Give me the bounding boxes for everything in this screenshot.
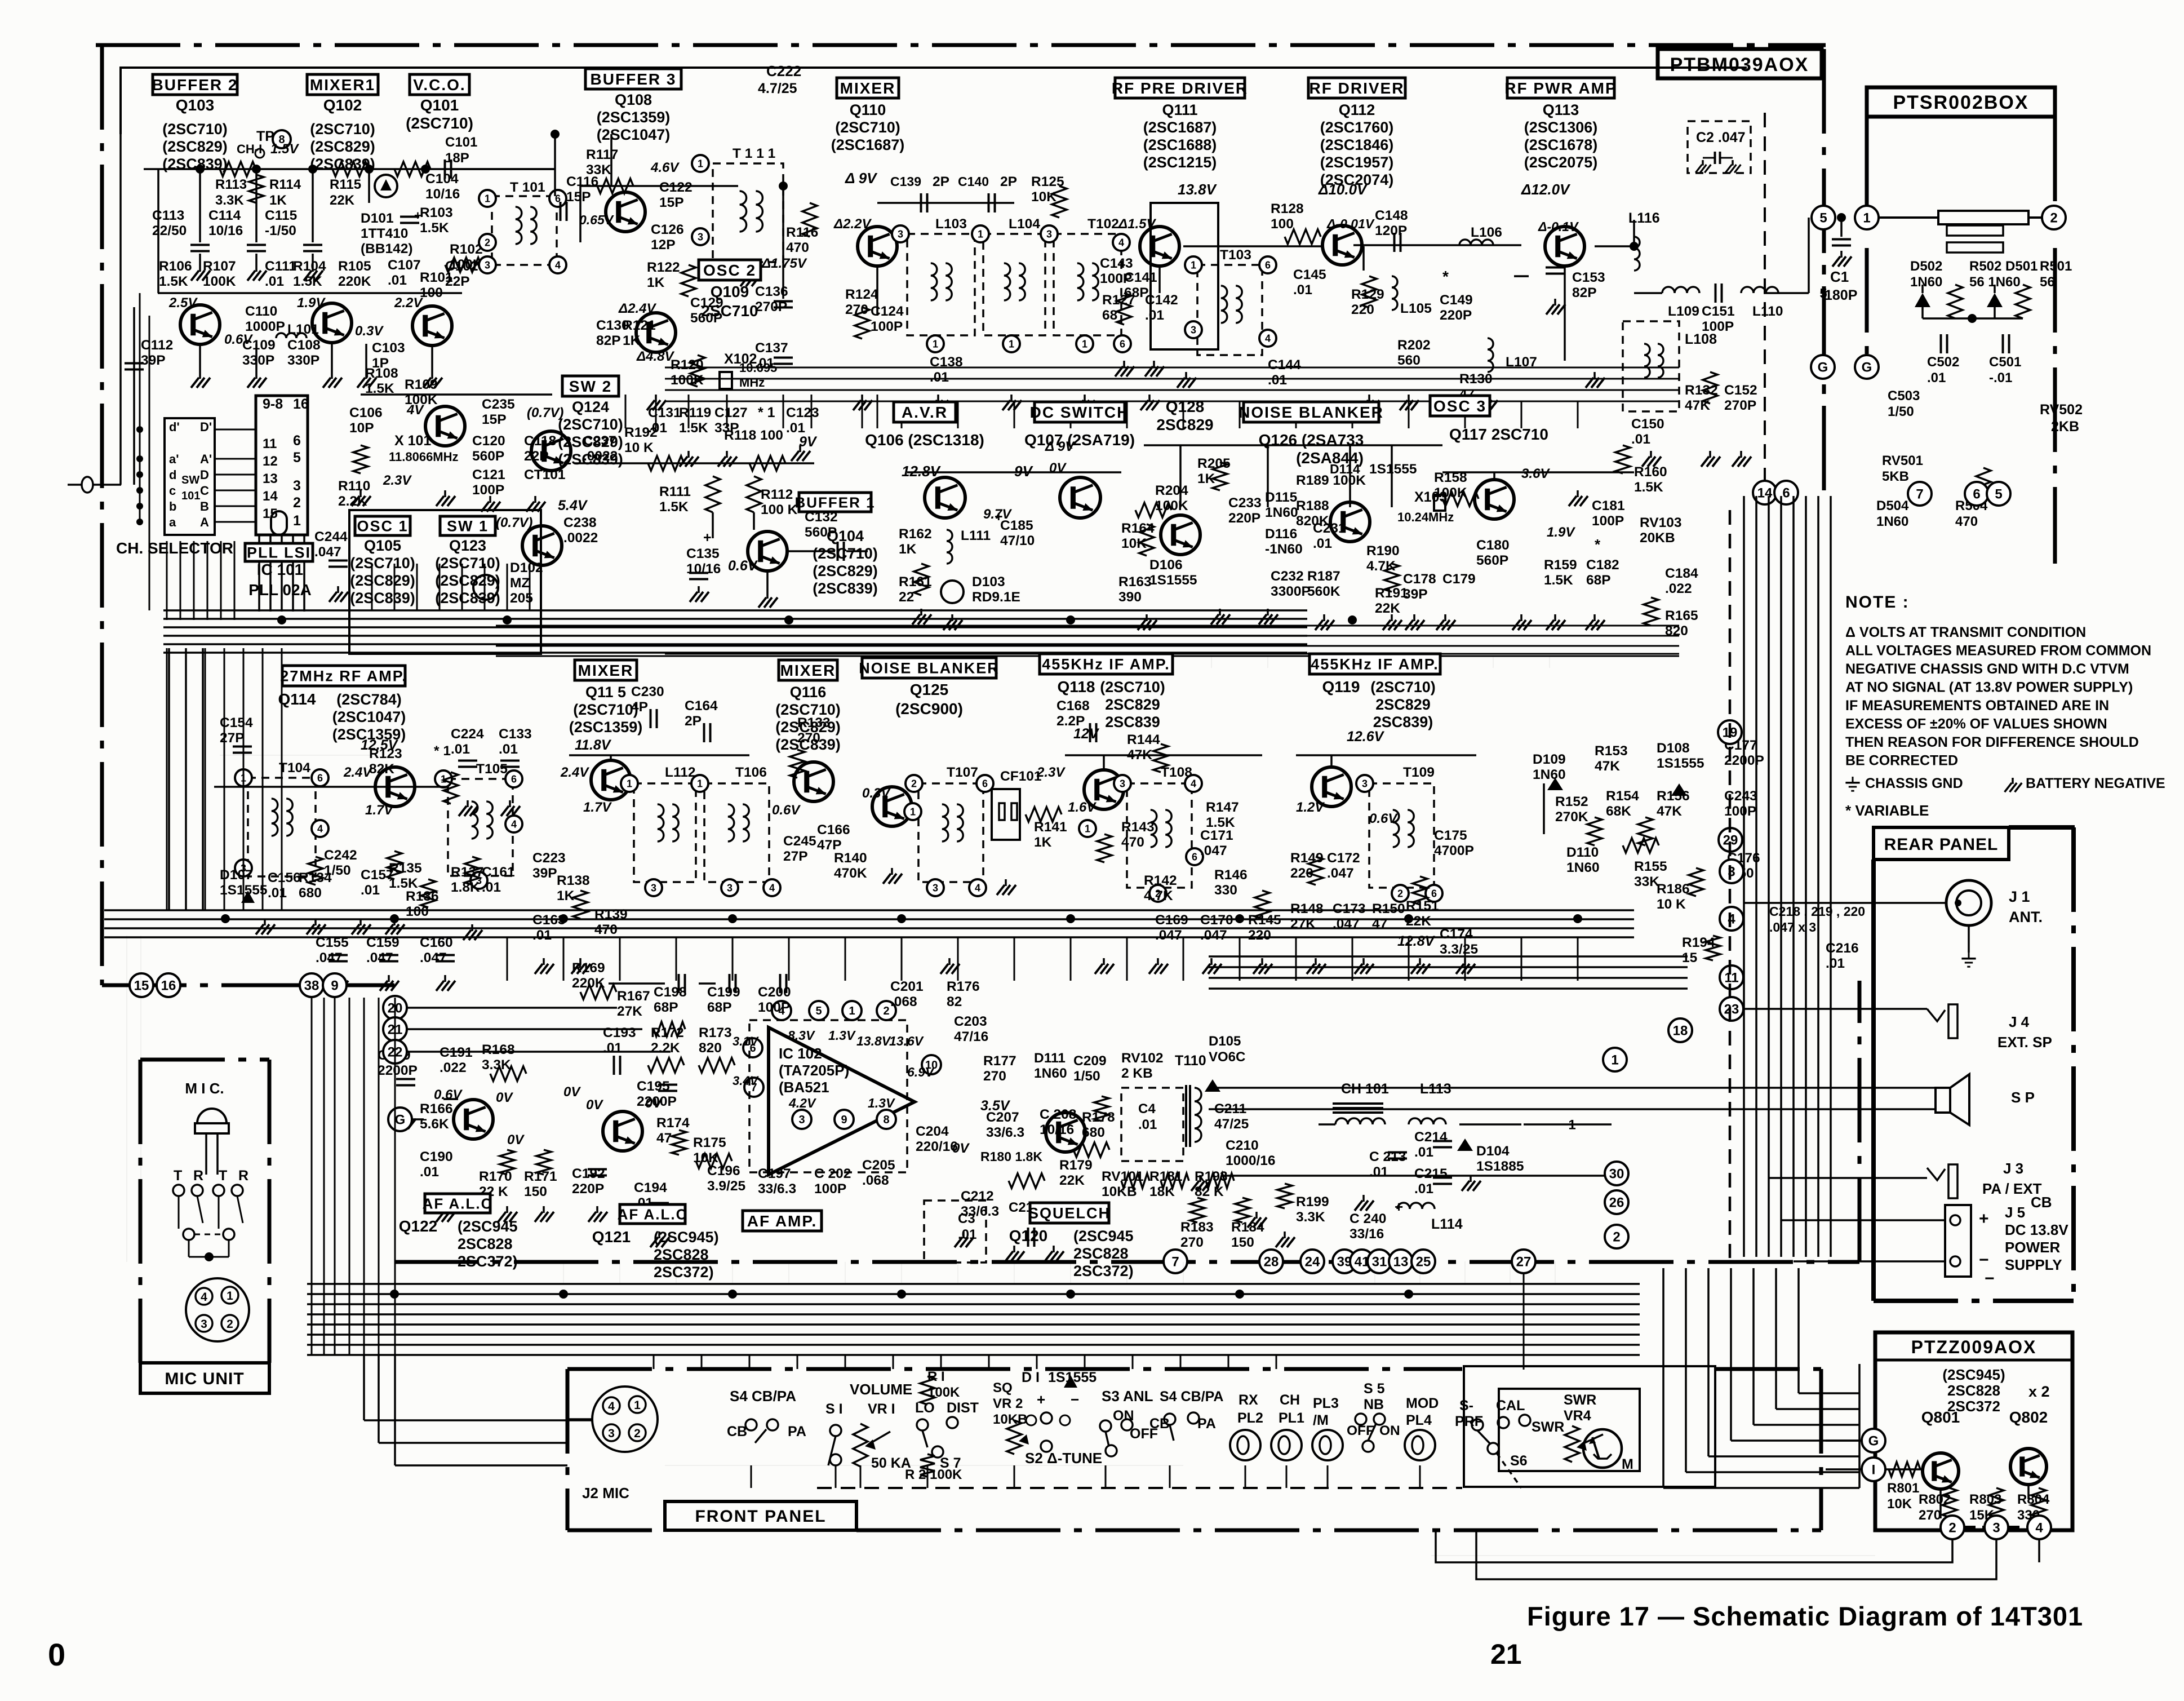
svg-text:2.2K: 2.2K <box>338 494 367 509</box>
svg-text:Q112: Q112 <box>1339 101 1375 118</box>
svg-text:SWR: SWR <box>1532 1419 1564 1435</box>
svg-text:3.3/25: 3.3/25 <box>1440 942 1478 957</box>
svg-text:0V: 0V <box>496 1090 513 1105</box>
svg-text:.01: .01 <box>1293 282 1312 298</box>
svg-text:+: + <box>703 530 712 546</box>
svg-text:10K: 10K <box>1887 1496 1912 1512</box>
svg-text:20KB: 20KB <box>1640 530 1675 546</box>
svg-text:3.3K: 3.3K <box>215 193 244 208</box>
svg-text:R155: R155 <box>1634 859 1667 874</box>
svg-text:D114: D114 <box>1330 462 1360 476</box>
svg-text:3: 3 <box>933 882 938 893</box>
svg-text:a: a <box>169 515 176 529</box>
svg-text:2SC828: 2SC828 <box>654 1246 709 1263</box>
svg-text:* 1: * 1 <box>434 743 451 759</box>
svg-text:100P: 100P <box>472 482 504 498</box>
svg-text:3.9/25: 3.9/25 <box>707 1179 745 1194</box>
svg-text:C123: C123 <box>786 405 819 420</box>
svg-text:2: 2 <box>883 1005 889 1017</box>
svg-text:ON: ON <box>1379 1423 1400 1438</box>
svg-text:6: 6 <box>1973 487 1980 502</box>
svg-text:MIXER: MIXER <box>840 79 896 97</box>
svg-text:R177: R177 <box>983 1053 1016 1069</box>
svg-text:MIXER1: MIXER1 <box>310 76 375 94</box>
svg-text:26: 26 <box>1609 1195 1624 1211</box>
svg-text:S4 CB/PA: S4 CB/PA <box>1160 1389 1223 1405</box>
svg-text:T106: T106 <box>735 765 767 780</box>
svg-text:Q101: Q101 <box>420 96 459 114</box>
svg-text:(BA521: (BA521 <box>779 1079 829 1096</box>
svg-text:L110: L110 <box>1752 304 1783 319</box>
svg-text:MHz: MHz <box>739 375 765 389</box>
svg-text:1.3V: 1.3V <box>828 1028 856 1043</box>
svg-text:D108: D108 <box>1657 741 1690 756</box>
svg-text:R123: R123 <box>369 746 402 761</box>
svg-text:(2SC1687): (2SC1687) <box>831 136 905 153</box>
svg-text:.01: .01 <box>482 880 501 895</box>
svg-text:Q106 (2SC1318): Q106 (2SC1318) <box>865 431 984 449</box>
svg-text:C214: C214 <box>1414 1129 1448 1145</box>
svg-text:C113: C113 <box>152 208 184 223</box>
svg-text:33/16: 33/16 <box>1350 1226 1384 1242</box>
svg-text:2P: 2P <box>933 174 949 189</box>
svg-text:NOISE BLANKER: NOISE BLANKER <box>859 660 1000 677</box>
svg-text:22: 22 <box>899 590 914 605</box>
svg-text:.01: .01 <box>268 885 287 901</box>
svg-text:5: 5 <box>1995 487 2002 502</box>
svg-text:18: 18 <box>1673 1024 1688 1039</box>
svg-text:R125: R125 <box>1031 174 1064 189</box>
svg-text:4: 4 <box>1265 333 1271 344</box>
svg-text:Δ10.0V: Δ10.0V <box>1318 181 1368 198</box>
svg-text:-.01: -.01 <box>1989 370 2012 386</box>
svg-text:1K: 1K <box>557 888 575 903</box>
svg-text:4: 4 <box>511 818 517 830</box>
svg-text:2 KB: 2 KB <box>1121 1066 1153 1081</box>
svg-text:9: 9 <box>331 978 338 994</box>
svg-text:(2SC829): (2SC829) <box>350 572 415 589</box>
svg-text:(2SC784): (2SC784) <box>336 691 402 708</box>
svg-text:4P: 4P <box>631 699 648 715</box>
svg-text:.047: .047 <box>1327 866 1354 881</box>
svg-text:6: 6 <box>1431 888 1437 899</box>
svg-text:d': d' <box>169 420 180 434</box>
svg-text:C127: C127 <box>714 405 748 420</box>
svg-text:C175: C175 <box>1434 828 1467 843</box>
svg-text:R156: R156 <box>1657 789 1690 804</box>
svg-text:Q114: Q114 <box>278 690 316 708</box>
svg-text:0.6V: 0.6V <box>434 1087 463 1102</box>
svg-text:2: 2 <box>293 495 301 511</box>
svg-text:3: 3 <box>698 231 703 242</box>
svg-text:10/16: 10/16 <box>686 561 721 577</box>
svg-text:.047: .047 <box>1200 928 1227 943</box>
svg-text:1S1885: 1S1885 <box>1476 1159 1524 1174</box>
svg-text:(2SC710): (2SC710) <box>1370 679 1436 696</box>
svg-text:1: 1 <box>293 513 301 529</box>
svg-text:100: 100 <box>1271 216 1294 232</box>
svg-text:C170: C170 <box>1200 912 1233 928</box>
svg-text:47/10: 47/10 <box>1000 533 1035 548</box>
svg-text:MOD: MOD <box>1406 1396 1439 1411</box>
svg-text:T 1 1 1: T 1 1 1 <box>733 146 775 161</box>
svg-text:3: 3 <box>651 882 656 893</box>
svg-text:S 5: S 5 <box>1364 1381 1385 1397</box>
svg-text:560: 560 <box>1397 353 1421 368</box>
svg-text:C173: C173 <box>1333 901 1366 916</box>
svg-text:-1/50: -1/50 <box>265 223 296 238</box>
svg-text:2.3V: 2.3V <box>383 473 412 488</box>
svg-text:BATTERY NEGATIVE: BATTERY NEGATIVE <box>2026 776 2165 791</box>
svg-text:.022: .022 <box>440 1060 467 1075</box>
svg-text:82: 82 <box>947 994 962 1009</box>
svg-text:Q107 (2SA719): Q107 (2SA719) <box>1024 431 1135 449</box>
svg-text:VR 2: VR 2 <box>993 1396 1023 1411</box>
svg-text:DC 13.8V: DC 13.8V <box>2005 1221 2068 1238</box>
svg-text:22/50: 22/50 <box>152 223 187 238</box>
svg-text:2.2K: 2.2K <box>651 1040 680 1056</box>
svg-text:PLL 02A: PLL 02A <box>248 581 312 599</box>
svg-text:MIC UNIT: MIC UNIT <box>165 1370 244 1388</box>
svg-text:C179: C179 <box>1442 572 1476 587</box>
svg-text:(2SC1688): (2SC1688) <box>1143 136 1217 153</box>
svg-text:Q124: Q124 <box>572 398 609 415</box>
svg-text:G: G <box>1868 1434 1879 1449</box>
svg-text:C172: C172 <box>1327 850 1360 866</box>
svg-text:10 K: 10 K <box>1657 897 1686 912</box>
svg-text:R121: R121 <box>623 318 656 333</box>
svg-text:L103: L103 <box>935 216 967 232</box>
svg-text:J 5: J 5 <box>2005 1204 2025 1221</box>
svg-text:560P: 560P <box>690 311 722 326</box>
svg-text:M: M <box>1622 1456 1633 1472</box>
svg-text:D110: D110 <box>1566 845 1599 860</box>
svg-text:X 101: X 101 <box>394 433 431 449</box>
svg-text:R113: R113 <box>215 177 247 192</box>
svg-text:VR I: VR I <box>868 1401 895 1417</box>
svg-text:1S1555: 1S1555 <box>1657 756 1704 771</box>
svg-text:0.3V: 0.3V <box>862 786 891 801</box>
svg-text:560P: 560P <box>1476 553 1508 568</box>
svg-text:L105: L105 <box>1400 301 1432 316</box>
svg-text:470: 470 <box>594 922 618 937</box>
svg-text:Q113: Q113 <box>1543 101 1579 118</box>
svg-text:6: 6 <box>317 772 323 783</box>
svg-text:3300P: 3300P <box>1271 584 1311 599</box>
svg-text:R: R <box>238 1168 248 1184</box>
svg-text:C197: C197 <box>758 1166 791 1181</box>
svg-text:−: − <box>1985 1269 1995 1288</box>
svg-text:S P: S P <box>2011 1089 2035 1106</box>
svg-text:.068: .068 <box>862 1173 889 1188</box>
svg-text:150: 150 <box>1231 1235 1254 1250</box>
svg-text:220P: 220P <box>1228 511 1260 526</box>
svg-text:47/16: 47/16 <box>954 1029 988 1044</box>
svg-text:1: 1 <box>1085 823 1090 834</box>
svg-text:2SC828: 2SC828 <box>1073 1245 1129 1262</box>
svg-text:C151: C151 <box>1702 304 1735 319</box>
svg-text:.01: .01 <box>755 356 774 371</box>
svg-text:R187: R187 <box>1307 569 1340 584</box>
svg-text:L109: L109 <box>1668 304 1699 319</box>
svg-text:100 K: 100 K <box>761 502 798 517</box>
svg-text:.01: .01 <box>1927 370 1946 386</box>
svg-text:1.3V: 1.3V <box>868 1096 895 1110</box>
svg-text:22K: 22K <box>1375 601 1400 616</box>
svg-text:C196: C196 <box>707 1163 740 1179</box>
svg-text:12.8V: 12.8V <box>1397 933 1436 949</box>
svg-text:R135: R135 <box>389 861 422 876</box>
svg-text:1.5K: 1.5K <box>293 274 322 289</box>
svg-text:3.6V: 3.6V <box>1521 466 1550 481</box>
svg-text:.01: .01 <box>420 1164 439 1180</box>
svg-text:27: 27 <box>1516 1255 1532 1270</box>
svg-text:1.5K: 1.5K <box>159 274 188 289</box>
svg-text:VR4: VR4 <box>1564 1408 1591 1424</box>
svg-text:2: 2 <box>911 778 917 789</box>
svg-text:68P: 68P <box>1586 573 1611 588</box>
svg-text:(2SC1359): (2SC1359) <box>569 719 643 736</box>
svg-text:39P: 39P <box>532 866 557 881</box>
svg-text:C112: C112 <box>141 338 173 353</box>
svg-text:C111: C111 <box>265 259 296 274</box>
svg-text:(2SC710): (2SC710) <box>558 416 623 433</box>
svg-text:S I: S I <box>825 1401 843 1417</box>
svg-text:.01: .01 <box>958 1227 976 1242</box>
svg-text:1.9V: 1.9V <box>297 295 326 311</box>
svg-text:Q125: Q125 <box>910 681 949 698</box>
svg-text:82P: 82P <box>596 333 621 348</box>
svg-text:R139: R139 <box>594 907 628 922</box>
svg-text:1: 1 <box>698 158 703 169</box>
svg-text:23: 23 <box>1724 1002 1739 1017</box>
svg-text:2P: 2P <box>685 714 702 729</box>
svg-text:1: 1 <box>933 338 938 349</box>
svg-text:D105: D105 <box>1209 1034 1241 1049</box>
svg-text:RV103: RV103 <box>1640 515 1681 530</box>
svg-text:Q105: Q105 <box>364 537 401 554</box>
svg-text:12.6V: 12.6V <box>1347 729 1385 745</box>
svg-text:C145: C145 <box>1293 267 1326 282</box>
svg-text:470: 470 <box>1121 835 1144 850</box>
svg-text:C1: C1 <box>1830 268 1849 285</box>
svg-text:(2SC710): (2SC710) <box>435 555 500 572</box>
svg-text:NOTE :: NOTE : <box>1845 593 1910 612</box>
svg-text:2.4V: 2.4V <box>560 765 589 780</box>
svg-text:9-8: 9-8 <box>263 396 283 412</box>
svg-text:0.65V: 0.65V <box>579 212 614 227</box>
svg-text:L106: L106 <box>1471 225 1502 240</box>
svg-text:4.7K: 4.7K <box>1366 559 1396 574</box>
svg-text:R111: R111 <box>659 484 691 499</box>
svg-text:14: 14 <box>263 489 278 504</box>
svg-text:Δ 9V: Δ 9V <box>845 170 878 187</box>
svg-text:C198: C198 <box>654 985 687 1000</box>
svg-text:IC 102: IC 102 <box>779 1045 822 1062</box>
svg-text:R160: R160 <box>1634 464 1667 480</box>
svg-text:R199: R199 <box>1296 1194 1329 1210</box>
svg-text:3: 3 <box>798 1114 805 1126</box>
svg-text:Q108: Q108 <box>615 91 652 108</box>
svg-text:.01: .01 <box>1268 373 1287 388</box>
svg-text:R204: R204 <box>1155 483 1188 498</box>
svg-text:L112: L112 <box>665 765 696 780</box>
svg-text:0V: 0V <box>952 1141 970 1156</box>
svg-text:2P: 2P <box>1000 174 1017 189</box>
svg-text:J2 MIC: J2 MIC <box>582 1485 629 1501</box>
svg-text:0V: 0V <box>563 1084 581 1100</box>
svg-text:D104: D104 <box>1476 1144 1510 1159</box>
svg-text:NB: NB <box>1364 1397 1384 1412</box>
svg-text:MIXER: MIXER <box>578 662 634 679</box>
svg-text:7: 7 <box>1916 487 1923 502</box>
svg-text:9V: 9V <box>1014 463 1033 480</box>
svg-text:Δ12.0V: Δ12.0V <box>1521 181 1571 198</box>
svg-text:1: 1 <box>910 806 916 817</box>
svg-text:3: 3 <box>1120 778 1125 789</box>
svg-text:C107: C107 <box>388 258 421 273</box>
svg-text:PA: PA <box>1197 1416 1216 1432</box>
svg-text:.01: .01 <box>265 274 284 289</box>
svg-text:.01: .01 <box>603 1040 622 1056</box>
svg-text:A.V.R: A.V.R <box>902 404 948 421</box>
svg-text:+: + <box>414 209 421 223</box>
svg-text:C194: C194 <box>634 1180 667 1195</box>
svg-text:15P: 15P <box>566 189 591 205</box>
svg-text:220/16: 220/16 <box>916 1139 958 1154</box>
svg-text:.022: .022 <box>1665 581 1692 596</box>
svg-text:.01: .01 <box>786 420 805 436</box>
svg-text:ANT.: ANT. <box>2009 909 2043 925</box>
svg-text:Q102: Q102 <box>323 96 362 114</box>
svg-text:47K: 47K <box>1657 804 1682 819</box>
svg-text:C156: C156 <box>268 870 301 885</box>
svg-text:5KB: 5KB <box>1882 469 1909 484</box>
svg-text:56: 56 <box>2040 274 2055 290</box>
svg-text:Figure 17 — Schematic Diagram: Figure 17 — Schematic Diagram of 14T301 <box>1527 1601 2083 1631</box>
svg-text:RF PWR AMP: RF PWR AMP <box>1504 79 1617 97</box>
svg-text:10 K: 10 K <box>624 440 654 455</box>
svg-text:6: 6 <box>1265 259 1271 271</box>
svg-text:C149: C149 <box>1440 293 1473 308</box>
svg-text:C210: C210 <box>1226 1138 1259 1153</box>
svg-text:C133: C133 <box>499 727 532 742</box>
svg-text:RF PRE DRIVER: RF PRE DRIVER <box>1112 79 1248 97</box>
svg-text:0V: 0V <box>586 1097 603 1113</box>
svg-text:R104: R104 <box>293 259 326 274</box>
svg-text:M I C.: M I C. <box>185 1080 224 1097</box>
svg-text:BUFFER 2: BUFFER 2 <box>152 76 238 94</box>
svg-text:11: 11 <box>1724 971 1738 986</box>
svg-text:(2SC710): (2SC710) <box>406 114 473 132</box>
svg-text:C212: C212 <box>961 1189 994 1204</box>
svg-text:470K: 470K <box>834 866 867 881</box>
svg-text:270K: 270K <box>1555 809 1588 825</box>
svg-text:AT NO SIGNAL (AT 13.8V POWER S: AT NO SIGNAL (AT 13.8V POWER SUPPLY) <box>1845 680 2133 696</box>
svg-text:+: + <box>995 509 1003 525</box>
svg-text:(2SC839): (2SC839) <box>813 580 878 597</box>
svg-text:1N60: 1N60 <box>1265 505 1298 520</box>
svg-text:RV102: RV102 <box>1121 1051 1163 1066</box>
svg-text:.047: .047 <box>316 950 343 965</box>
svg-text:R167: R167 <box>617 989 650 1004</box>
svg-text:C140: C140 <box>958 174 989 189</box>
svg-text:S4 CB/PA: S4 CB/PA <box>730 1388 796 1405</box>
svg-text:C205: C205 <box>862 1158 895 1173</box>
svg-text:ALL VOLTAGES MEASURED FROM COM: ALL VOLTAGES MEASURED FROM COMMON <box>1845 643 2151 659</box>
svg-text:(2SC1957): (2SC1957) <box>1320 154 1394 171</box>
svg-text:C184: C184 <box>1665 566 1698 581</box>
svg-text:J 3: J 3 <box>2003 1160 2023 1177</box>
svg-text:FRONT PANEL: FRONT PANEL <box>695 1507 826 1526</box>
svg-text:C201: C201 <box>890 979 924 994</box>
svg-text:.01: .01 <box>361 883 380 898</box>
svg-text:(0.7V): (0.7V) <box>527 405 563 420</box>
svg-text:2SC828: 2SC828 <box>458 1235 513 1252</box>
svg-text:R110: R110 <box>338 479 370 494</box>
svg-text:12.8V: 12.8V <box>902 463 942 480</box>
svg-text:13.6V: 13.6V <box>889 1034 924 1048</box>
svg-text:27P: 27P <box>783 849 808 864</box>
svg-text:10P: 10P <box>349 420 374 436</box>
svg-text:C148: C148 <box>1375 208 1408 223</box>
svg-text:2: 2 <box>634 1427 641 1440</box>
svg-text:R801: R801 <box>1887 1481 1919 1496</box>
svg-text:C502: C502 <box>1927 355 1959 370</box>
svg-text:R 2 100K: R 2 100K <box>905 1467 962 1482</box>
svg-text:47K: 47K <box>1595 759 1620 774</box>
svg-text:R138: R138 <box>557 873 590 888</box>
svg-text:L111: L111 <box>961 528 991 543</box>
svg-text:OSC 3: OSC 3 <box>1433 397 1486 415</box>
svg-text:C160: C160 <box>420 935 453 950</box>
svg-text:(2SC1306): (2SC1306) <box>1524 119 1598 136</box>
svg-text:V.C.O.: V.C.O. <box>413 76 465 94</box>
svg-text:330P: 330P <box>287 353 319 368</box>
svg-text:PLL LSI: PLL LSI <box>247 544 311 561</box>
svg-text:1.5K: 1.5K <box>365 381 394 396</box>
svg-text:270: 270 <box>983 1069 1006 1084</box>
svg-text:100K: 100K <box>203 274 236 289</box>
svg-text:.01: .01 <box>1414 1181 1433 1197</box>
svg-text:(2SC710): (2SC710) <box>813 545 878 562</box>
svg-text:R166: R166 <box>420 1101 453 1117</box>
svg-text:C144: C144 <box>1268 357 1301 373</box>
svg-text:10.24MHz: 10.24MHz <box>1397 510 1454 524</box>
svg-text:1: 1 <box>485 193 490 204</box>
svg-text:R117: R117 <box>586 147 618 162</box>
svg-text:6.9V: 6.9V <box>907 1065 935 1079</box>
svg-text:C166: C166 <box>817 822 850 838</box>
svg-text:31: 31 <box>1372 1255 1387 1270</box>
svg-text:L108: L108 <box>1685 331 1717 347</box>
svg-text:Q122: Q122 <box>399 1217 438 1235</box>
svg-text:C3: C3 <box>958 1211 975 1226</box>
svg-text:(2SC710): (2SC710) <box>162 121 228 138</box>
svg-text:270: 270 <box>1180 1235 1204 1250</box>
svg-text:4: 4 <box>1118 237 1124 248</box>
svg-text:10KB: 10KB <box>993 1412 1027 1427</box>
svg-text:IF MEASUREMENTS OBTAINED ARE I: IF MEASUREMENTS OBTAINED ARE IN <box>1845 698 2109 714</box>
svg-text:2200P: 2200P <box>378 1063 418 1078</box>
svg-text:13.8V: 13.8V <box>856 1034 891 1048</box>
svg-text:Q123: Q123 <box>449 537 486 554</box>
svg-text:47: 47 <box>1372 916 1387 932</box>
svg-text:T103: T103 <box>1220 247 1251 263</box>
svg-text:1: 1 <box>1611 1053 1618 1068</box>
svg-text:(TA7205P): (TA7205P) <box>779 1062 849 1079</box>
svg-text:C116: C116 <box>566 174 598 189</box>
